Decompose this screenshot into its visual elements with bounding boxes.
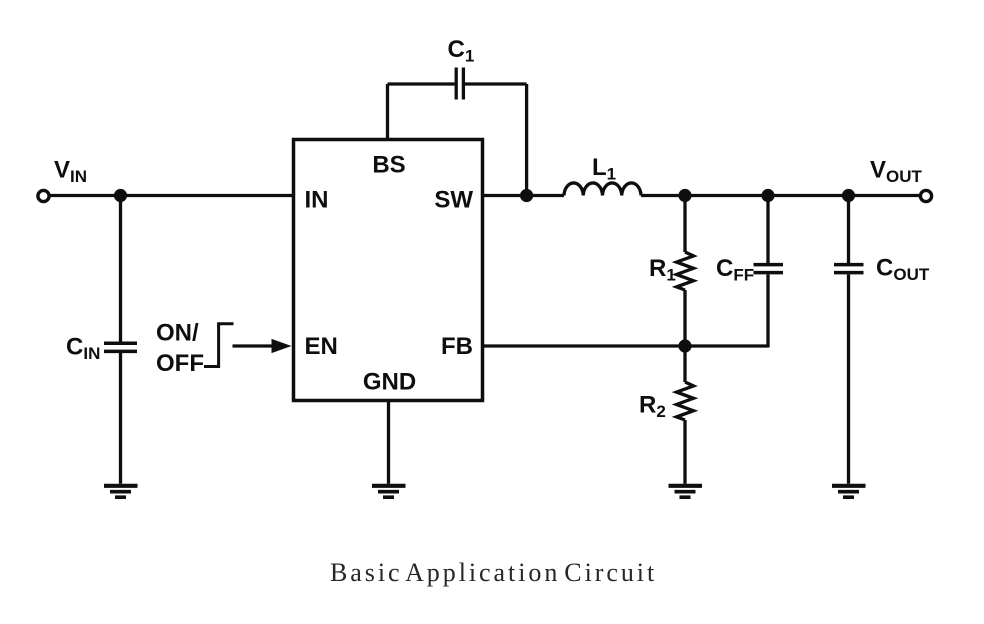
capacitor CIN <box>104 343 137 351</box>
wire COUT bottom <box>847 275 850 484</box>
op-amp U1 IC box <box>294 140 483 401</box>
node step symbol <box>204 324 234 367</box>
ground GND pin <box>372 486 406 497</box>
svg-text:BS: BS <box>372 152 405 179</box>
node SW junction <box>520 189 533 202</box>
wire drop to SW net <box>525 84 528 196</box>
wire CFF bottom <box>766 275 769 348</box>
wire GND pin down <box>387 401 390 484</box>
wire CIN top <box>119 196 122 342</box>
wire R1 top <box>683 196 686 253</box>
capacitor COUT <box>834 265 864 273</box>
label ON/OFF <box>156 320 204 378</box>
svg-text:Basic Application Circuit: Basic Application Circuit <box>330 558 657 587</box>
wire VIN to IN pin <box>51 194 294 197</box>
wire L1 to VOUT <box>641 194 920 197</box>
resistor R2 <box>677 382 694 420</box>
svg-text:COUT: COUT <box>876 255 930 285</box>
svg-text:FB: FB <box>441 333 473 360</box>
ground COUT <box>832 486 866 497</box>
node R1 top junction <box>678 189 691 202</box>
wire BS to C1 <box>388 82 455 85</box>
node COUT top junction <box>842 189 855 202</box>
node EN arrowhead <box>272 339 292 353</box>
ground CIN <box>104 486 138 497</box>
wire FB net <box>483 344 769 347</box>
svg-text:IN: IN <box>305 187 329 214</box>
wire BS pin up <box>386 84 389 141</box>
wire CFF top <box>766 196 769 264</box>
wire COUT top <box>847 196 850 264</box>
wire CIN bottom <box>119 353 122 484</box>
terminal VOUT <box>920 190 931 201</box>
node CFF top junction <box>761 189 774 202</box>
terminal VIN <box>38 190 49 201</box>
ground R2 <box>669 486 703 497</box>
wire EN arrow <box>233 344 276 347</box>
svg-text:GND: GND <box>363 369 416 396</box>
svg-text:R2: R2 <box>639 392 666 422</box>
svg-text:ON/: ON/ <box>156 320 199 347</box>
wire R2 top <box>683 346 686 382</box>
svg-text:OFF: OFF <box>156 350 204 377</box>
svg-text:L1: L1 <box>592 154 616 184</box>
svg-text:C1: C1 <box>448 36 475 66</box>
svg-text:R1: R1 <box>649 255 676 285</box>
node FB junction <box>678 339 691 352</box>
resistor R1 <box>677 252 694 290</box>
wire SW pin to inductor <box>483 194 565 197</box>
wire R1 bottom <box>683 290 686 346</box>
node input junction <box>114 189 127 202</box>
wire R2 bottom <box>683 420 686 484</box>
capacitor CFF <box>754 265 784 273</box>
inductor L1 <box>564 183 641 196</box>
svg-text:CIN: CIN <box>66 334 100 364</box>
svg-text:VOUT: VOUT <box>870 157 923 187</box>
svg-text:SW: SW <box>434 187 473 214</box>
svg-text:CFF: CFF <box>716 255 754 285</box>
wire C1 to SW drop <box>465 82 527 85</box>
svg-text:EN: EN <box>305 333 338 360</box>
capacitor C1 <box>456 68 463 100</box>
svg-text:VIN: VIN <box>54 157 87 187</box>
